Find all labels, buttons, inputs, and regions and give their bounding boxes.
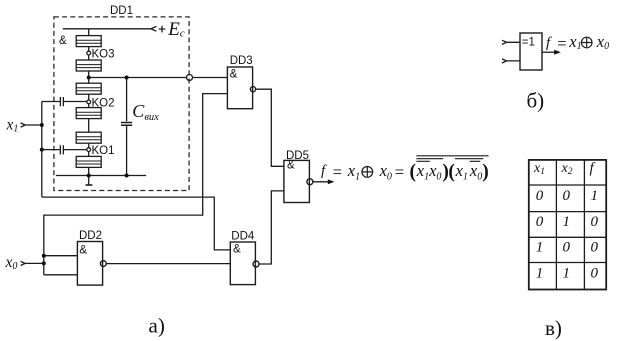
- svg-text:0: 0: [563, 240, 571, 256]
- svg-text:=: =: [394, 163, 405, 182]
- svg-text:(: (: [410, 162, 417, 183]
- svg-text:KO1: KO1: [92, 145, 115, 157]
- svg-text:б): б): [527, 89, 545, 113]
- svg-text:x1: x1: [568, 32, 581, 52]
- svg-text:x1: x1: [416, 161, 429, 183]
- svg-text:(: (: [448, 162, 455, 183]
- svg-text:DD3: DD3: [230, 55, 253, 67]
- svg-text:0: 0: [536, 188, 544, 204]
- svg-text:0: 0: [536, 214, 544, 230]
- svg-text:DD1: DD1: [110, 5, 133, 17]
- svg-text:Ec: Ec: [167, 19, 185, 40]
- svg-text:&: &: [233, 243, 241, 255]
- svg-text:1: 1: [536, 266, 544, 282]
- svg-text:x0: x0: [428, 161, 441, 183]
- svg-text:0: 0: [591, 214, 599, 230]
- svg-text:&: &: [59, 35, 67, 47]
- svg-text:x1: x1: [455, 161, 468, 183]
- svg-text:KO3: KO3: [92, 49, 115, 61]
- svg-text:0: 0: [591, 240, 599, 256]
- svg-text:x1: x1: [347, 161, 360, 183]
- svg-text:DD2: DD2: [79, 230, 102, 242]
- svg-text:0: 0: [591, 266, 599, 282]
- svg-text:=: =: [556, 34, 567, 53]
- svg-text:f: f: [590, 161, 596, 177]
- svg-text:0: 0: [563, 188, 571, 204]
- svg-text:1: 1: [563, 214, 571, 230]
- svg-text:&: &: [230, 69, 238, 81]
- svg-text:в): в): [545, 316, 562, 340]
- svg-text:1: 1: [591, 188, 599, 204]
- svg-text:x2: x2: [561, 161, 573, 177]
- svg-text:1: 1: [563, 266, 571, 282]
- svg-text:x0: x0: [379, 161, 392, 183]
- svg-text:x1: x1: [6, 117, 19, 135]
- svg-text:=1: =1: [522, 36, 535, 48]
- svg-text:а): а): [149, 314, 165, 338]
- svg-text:f: f: [321, 163, 327, 179]
- svg-text:KO2: KO2: [92, 97, 115, 109]
- svg-text:&: &: [287, 160, 295, 172]
- svg-text:1: 1: [536, 240, 544, 256]
- svg-text:x0: x0: [596, 32, 609, 52]
- svg-text:): ): [482, 162, 489, 183]
- svg-text:&: &: [79, 244, 87, 256]
- svg-text:x1: x1: [533, 161, 545, 177]
- svg-text:x0: x0: [5, 254, 18, 272]
- svg-text:DD4: DD4: [231, 230, 255, 242]
- svg-text:Cвих: Cвих: [132, 101, 159, 123]
- svg-text:f: f: [546, 35, 552, 51]
- svg-text:=: =: [332, 163, 343, 182]
- svg-text:x0: x0: [469, 161, 482, 183]
